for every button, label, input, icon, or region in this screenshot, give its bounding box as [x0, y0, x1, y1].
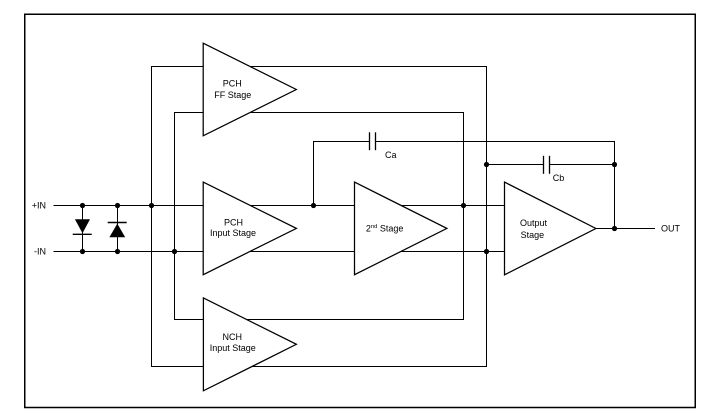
svg-text:FF Stage: FF Stage	[214, 90, 251, 100]
svg-text:PCH: PCH	[223, 79, 242, 89]
svg-text:Output: Output	[520, 218, 548, 228]
svg-text:Input Stage: Input Stage	[210, 228, 256, 238]
svg-text:PCH: PCH	[224, 218, 243, 228]
svg-text:OUT: OUT	[661, 224, 681, 234]
svg-text:Ca: Ca	[385, 150, 397, 160]
svg-text:NCH: NCH	[223, 332, 243, 342]
svg-text:Cb: Cb	[553, 173, 565, 183]
svg-text:Stage: Stage	[521, 230, 545, 240]
svg-text:-IN: -IN	[34, 247, 46, 257]
svg-text:Input Stage: Input Stage	[210, 343, 256, 353]
svg-text:+IN: +IN	[32, 201, 46, 211]
